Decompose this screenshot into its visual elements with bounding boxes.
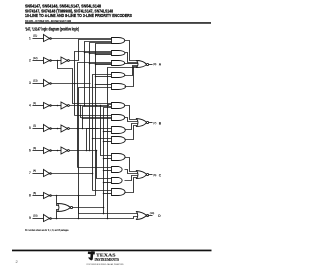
wire G5 out to NOR A (125, 67, 139, 87)
wire NOR B out (149, 122, 153, 124)
wire tap net4 to G2 (84, 52, 112, 54)
wire input 6 stub (33, 150, 44, 152)
svg-text:7: 7 (29, 171, 31, 175)
NOR gate D output (137, 212, 149, 220)
buffer 6 (second inverter) (61, 147, 69, 154)
svg-text:(5): (5) (33, 192, 36, 195)
inverter 1 (44, 35, 52, 42)
svg-text:A: A (159, 63, 162, 67)
input 5 label (pin 2) (29, 124, 36, 130)
wire G8 out to NOR B (125, 124, 140, 130)
AND gate G8 (112, 127, 126, 134)
wire net9 branch to NOR89 (57, 210, 61, 219)
wire tap net89 to G8 (103, 131, 112, 133)
wire G13 out to NOR C (125, 178, 139, 193)
AND gate G11 (112, 167, 123, 173)
svg-text:(9): (9) (153, 63, 156, 66)
output B label (pin 7) (153, 121, 161, 125)
svg-text:2: 2 (16, 259, 19, 264)
wire tap net5b to G7 (82, 118, 112, 120)
TI logo word INSTRUMENTS (95, 257, 120, 262)
svg-text:Pin numbers shown are for D, J: Pin numbers shown are for D, J, N, and W… (25, 228, 69, 232)
wire tap net89 to G11 (103, 170, 112, 172)
node row2 tap (57, 60, 59, 62)
input 7 label (pin 4) (29, 169, 36, 175)
node net5 junctions (77, 128, 79, 130)
wire inverter5 to buffer5 (51, 128, 62, 130)
node row5 tap (57, 128, 59, 130)
wire net5 row (69, 128, 98, 130)
svg-text:POST OFFICE BOX 655303 • DALLA: POST OFFICE BOX 655303 • DALLAS, TEXAS 7… (87, 263, 124, 266)
wire net6 drop to G12 (96, 150, 112, 179)
wire input 3 stub (33, 83, 44, 85)
svg-text:(7): (7) (153, 122, 156, 125)
wire inverter6 to buffer6 (51, 150, 62, 152)
svg-text:(11): (11) (33, 35, 37, 38)
AND gate G6 (112, 103, 125, 109)
svg-text:9: 9 (29, 216, 31, 220)
wire net6 row (69, 150, 96, 152)
inverter 6 (44, 148, 52, 154)
wire G12 out to NOR C (125, 176, 140, 181)
wire net8 drop to NOR D (79, 196, 139, 214)
wire riser net6 to G1 (90, 43, 112, 151)
node net9 junctions (56, 218, 80, 220)
node net3 junction (74, 83, 76, 85)
svg-text:10-LINE TO 4-LINE AND 8-LINE T: 10-LINE TO 4-LINE AND 8-LINE TO 3-LINE P… (25, 13, 132, 18)
header rule (25, 22, 211, 24)
input 9 label (pin 10) (29, 214, 38, 220)
svg-text:’147, ’LS147 logic diagram (po: ’147, ’LS147 logic diagram (positive log… (25, 27, 79, 32)
output C label (pin 6) (153, 173, 161, 177)
wire riser net3 to G2 and G7 (75, 52, 112, 116)
svg-text:1: 1 (29, 36, 31, 40)
svg-text:(3): (3) (33, 147, 36, 150)
wire net2 drop to G6 (58, 61, 112, 104)
svg-text:3: 3 (29, 81, 31, 85)
page number (16, 259, 19, 264)
wire net3 row (51, 83, 91, 85)
wire inverter4 to buffer4 (51, 105, 62, 107)
wire input 1 stub (33, 38, 44, 40)
wire net7 row (51, 173, 93, 175)
wire G10 out to NOR C (125, 158, 140, 172)
node net4 taps (80, 105, 102, 107)
wire tap net89 to G9 (103, 141, 112, 143)
output A label (pin 9) (153, 63, 161, 67)
input 8 label (pin 5) (29, 192, 36, 198)
wire riser net5 to G3 and G11 (78, 63, 112, 168)
wire G3 out to NOR A (125, 63, 140, 65)
AND gate G9 (112, 137, 126, 144)
wire net9 direct to NOR A (107, 68, 138, 220)
inverter 5 (44, 125, 52, 132)
AND gate G10 (112, 154, 126, 161)
wire G7 out to NOR B (125, 118, 140, 122)
wire G2 out to NOR A (125, 53, 140, 63)
svg-text:D: D (158, 214, 161, 218)
inverter 8 (44, 193, 52, 199)
svg-text:(14): (14) (150, 212, 155, 215)
wire riser net7 to G4 and G13 (93, 75, 112, 191)
wire net5b riser to G6 (82, 107, 112, 130)
wire buffer2 out riser to G1 (69, 40, 111, 61)
AND gate G1 (112, 38, 125, 44)
svg-text:5: 5 (29, 126, 31, 130)
AND gate G4 (112, 73, 125, 78)
svg-text:(4): (4) (33, 169, 36, 172)
subtitle (25, 27, 79, 32)
svg-text:4: 4 (29, 104, 31, 108)
AND gate G2 (112, 51, 125, 56)
wire input 8 stub (33, 195, 44, 197)
NOR gate B output (137, 119, 149, 127)
TI logo word TEXAS (96, 253, 116, 258)
AND gate G5 (112, 84, 126, 90)
wire G1 out to NOR A (125, 41, 140, 61)
input 4 label (pin 1) (29, 102, 36, 108)
inverter 4 (44, 103, 52, 109)
wire tap net89 to G12 (103, 182, 112, 184)
AND gate G13 (112, 189, 126, 196)
svg-text:2: 2 (29, 59, 31, 63)
node row4 tap (57, 105, 59, 107)
inverter 3 (44, 80, 52, 87)
wire inverter2 to buffer2 (51, 60, 62, 62)
wire G6 out to NOR B (125, 106, 140, 120)
wire tap net8 to G4 (95, 76, 112, 78)
header title line 3 (25, 13, 132, 18)
wire G9 out to NOR B (125, 126, 139, 140)
input 3 label (pin 13) (29, 79, 38, 85)
wire NOR89 out to bus (73, 207, 104, 209)
wire net8 row (51, 195, 96, 197)
wire net4 row to G6 (69, 105, 111, 106)
wire G11 out to NOR C (125, 170, 140, 174)
svg-text:(10): (10) (33, 214, 38, 217)
buffer 2 (second inverter) (61, 57, 69, 64)
svg-text:C: C (159, 173, 162, 177)
wire input 4 stub (33, 105, 44, 107)
wire net89 bus to gates (103, 108, 112, 215)
wire tap net89 to G10 (103, 158, 112, 160)
NOR gate A output (137, 61, 149, 68)
wire tap net8 to G2 (95, 54, 112, 56)
wire input 5 stub (33, 128, 44, 130)
NOR gate 8-9 (58, 203, 73, 211)
svg-text:INSTRUMENTS: INSTRUMENTS (95, 257, 120, 262)
svg-text:(2): (2) (33, 124, 36, 127)
wire NOR C out (149, 174, 153, 176)
wire net4 drop to G7 (81, 106, 112, 118)
footer address (87, 263, 124, 266)
buffer 5 (second inverter) (61, 125, 69, 132)
wire tap net6 to G3 (89, 63, 112, 65)
wire riser net8 to G1 (96, 44, 112, 196)
NOR gate C output (137, 171, 149, 179)
inverter 7 (44, 170, 52, 177)
header title line 1 (25, 4, 101, 9)
buffer 4 (second inverter) (61, 102, 69, 109)
footer rule (12, 250, 212, 252)
svg-text:(1): (1) (33, 102, 36, 105)
wire input 2 stub (33, 60, 44, 62)
inverter 2 (44, 58, 52, 64)
AND gate G7 (112, 115, 125, 121)
node row6 tap (57, 150, 59, 152)
wire riser net4 to G1 (85, 42, 112, 106)
output D label (pin 14) (150, 212, 161, 218)
TI logo mark (88, 251, 95, 260)
AND gate G12 (112, 178, 123, 184)
wire NOR A out (149, 64, 153, 66)
footnote (25, 228, 69, 232)
input 1 label (pin 11) (29, 35, 37, 41)
wire tap net6 to G2 (89, 53, 112, 55)
AND gate G3 (112, 61, 125, 66)
wire input 7 stub (33, 173, 44, 175)
wire NOR D out (148, 215, 153, 217)
header title line 2 (25, 8, 113, 13)
wire net6 drop to G8 (87, 129, 112, 151)
node net7 junction (92, 173, 94, 175)
input 2 label (pin 12) (29, 57, 38, 63)
wire riser net9 to G5 (79, 88, 112, 219)
inverter 9 (44, 215, 52, 222)
wire input 9 stub (33, 218, 44, 220)
wire tap net8 to G3 (95, 64, 112, 66)
input 6 label (pin 3) (29, 147, 36, 153)
node net8 junctions (56, 195, 80, 197)
svg-text:(6): (6) (153, 174, 156, 177)
svg-text:(13): (13) (33, 79, 38, 82)
svg-text:6: 6 (29, 149, 31, 153)
svg-text:(12): (12) (33, 57, 38, 60)
wire net1 to G1 (51, 38, 112, 40)
svg-text:8: 8 (29, 194, 31, 198)
wire G4 out to NOR A (125, 66, 140, 76)
wire tap net7 to G9 (92, 138, 112, 140)
document number line (25, 20, 71, 23)
wire tap net8 to G5 (95, 84, 112, 86)
wire net8 branch to NOR89 (57, 196, 61, 206)
wire tap net89 to G13 (103, 193, 112, 195)
wire net9 row to NOR D (51, 217, 139, 219)
wire net4 drop to G10 (101, 106, 112, 156)
svg-text:B: B (159, 121, 162, 125)
node net6 junctions (86, 150, 91, 152)
